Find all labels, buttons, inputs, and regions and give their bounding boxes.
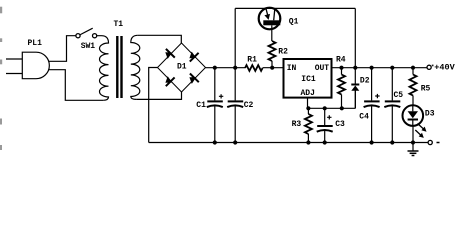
ground rail — [149, 142, 429, 144]
junction node ground C1 — [213, 140, 217, 144]
transformer T1 secondary winding — [131, 35, 140, 99]
transistor Q1 emitter with arrow — [264, 9, 270, 20]
switch SW1 contact left — [76, 34, 80, 38]
op-amp/regulator IC1 box — [284, 59, 332, 98]
junction node rail C1 — [213, 66, 217, 70]
junction node ground C5 — [390, 140, 394, 144]
capacitor C2 — [227, 100, 243, 142]
junction node ground C3 — [323, 140, 327, 144]
junction node rail R5 — [411, 66, 415, 70]
diode D2 lead top — [354, 68, 356, 84]
LED D3 light arrow lower — [415, 130, 424, 138]
svg-text:R5: R5 — [421, 84, 431, 93]
scan edge artifacts — [0, 7, 2, 150]
svg-text:C2: C2 — [244, 101, 254, 110]
svg-text:IN: IN — [287, 64, 297, 73]
plug PL1 body — [22, 52, 49, 78]
LED D3 light arrow upper — [418, 124, 427, 132]
wire bridge left corner to ground rail — [149, 68, 158, 143]
svg-text:SW1: SW1 — [81, 42, 96, 51]
capacitor C3 lead top — [324, 108, 326, 125]
wire secondary top to bridge top — [138, 35, 182, 43]
bridge D1 diode lower-left — [165, 76, 174, 86]
main positive rail right section — [332, 67, 428, 69]
junction node rail C5 — [390, 66, 394, 70]
junction node ADJ C3 — [323, 106, 327, 110]
capacitor C2 lead top — [234, 68, 236, 101]
wire plug bottom to transformer primary — [49, 70, 104, 101]
wire top rail right vertical — [354, 8, 356, 67]
transistor Q1 collector — [274, 9, 275, 20]
svg-text:+40V: +40V — [434, 63, 455, 73]
capacitor C4 — [364, 100, 380, 142]
transistor Q1 circle — [259, 8, 281, 30]
junction node ground C4 — [370, 140, 374, 144]
plug PL1 prong bottom — [6, 73, 22, 75]
negative terminal dash — [437, 142, 440, 144]
capacitor C1 plus sign — [219, 94, 223, 98]
svg-text:D3: D3 — [425, 109, 435, 118]
junction node rail R2 — [270, 66, 274, 70]
resistor R4 lead top — [341, 68, 343, 75]
main positive rail left section — [206, 67, 246, 69]
resistor R3 lead top — [307, 108, 309, 114]
junction node rail R4 — [339, 66, 343, 70]
svg-text:C4: C4 — [359, 113, 369, 122]
junction node rail C4 — [370, 66, 374, 70]
bridge D1 diode upper-right — [189, 52, 198, 62]
junction node rail C2 — [233, 66, 237, 70]
top bypass rail — [235, 7, 355, 9]
capacitor C3 — [317, 125, 333, 143]
junction node rail D2 — [353, 66, 357, 70]
svg-text:OUT: OUT — [315, 64, 330, 73]
artifact dot near +40V — [432, 65, 434, 67]
svg-text:Q1: Q1 — [289, 17, 299, 26]
svg-text:R1: R1 — [247, 56, 257, 65]
LED D3 diode — [408, 105, 418, 126]
junction node ground C2 — [233, 140, 237, 144]
capacitor C3 plus sign — [327, 115, 331, 119]
resistor R4 lead bottom — [341, 95, 343, 109]
svg-text:PL1: PL1 — [28, 39, 43, 48]
resistor R5 lead top — [412, 68, 414, 75]
junction node ADJ R3 — [306, 106, 310, 110]
transformer T1 core bar right — [120, 36, 122, 98]
svg-text:C1: C1 — [196, 101, 206, 110]
bridge rectifier D1 diamond — [158, 43, 206, 92]
capacitor C4 lead top — [371, 68, 373, 101]
negative output terminal — [428, 140, 432, 144]
svg-text:T1: T1 — [114, 20, 124, 29]
resistor R4 — [338, 75, 345, 95]
switch SW1 lever — [80, 28, 92, 34]
wire LED D3 to ground rail — [412, 126, 414, 143]
bridge D1 diode lower-right — [189, 74, 198, 84]
svg-text:R3: R3 — [292, 120, 302, 129]
resistor R5 — [410, 75, 417, 96]
wire secondary bottom to bridge bottom — [136, 92, 181, 99]
capacitor C5 lead top — [391, 68, 393, 101]
junction node ground R3 — [306, 140, 310, 144]
wire ADJ to D2 anode riser — [354, 91, 356, 109]
resistor R2 — [269, 41, 276, 61]
capacitor C5 — [384, 100, 400, 142]
positive output terminal — [427, 65, 431, 69]
ADJ node wire — [308, 107, 356, 109]
resistor R3 lead bottom — [307, 134, 309, 143]
capacitor C4 plus sign — [375, 94, 379, 98]
svg-text:D2: D2 — [360, 76, 370, 85]
junction node ADJ R4 — [340, 106, 344, 110]
wire ADJ pin down — [307, 98, 309, 109]
resistor R1 — [245, 65, 263, 71]
wire R2 to rail — [271, 61, 273, 68]
diode D2 — [351, 85, 359, 109]
svg-text:D1: D1 — [177, 62, 187, 71]
transistor Q1 base bar — [263, 20, 280, 25]
capacitor C1 — [207, 100, 223, 142]
ground symbol — [408, 143, 419, 156]
svg-text:R4: R4 — [336, 56, 346, 65]
svg-text:IC1: IC1 — [301, 75, 316, 84]
svg-text:C3: C3 — [335, 120, 345, 129]
LED D3 circle — [403, 105, 424, 126]
capacitor C1 lead top — [214, 68, 216, 101]
svg-text:R2: R2 — [278, 47, 288, 56]
wire plug top to switch — [49, 36, 76, 62]
wire R5 to LED D3 — [412, 96, 414, 106]
transformer T1 core bar left — [116, 36, 118, 98]
plug PL1 prong top — [6, 58, 22, 60]
svg-text:C5: C5 — [394, 91, 404, 100]
wire R1 to IC1 IN — [263, 67, 284, 69]
wire Q1 base to R2 — [271, 25, 273, 41]
bridge D1 diode upper-left — [165, 49, 175, 59]
svg-text:ADJ: ADJ — [301, 89, 315, 98]
switch SW1 contact right — [93, 34, 97, 38]
junction node ground D3 — [411, 140, 415, 144]
resistor R3 — [305, 114, 312, 134]
transformer T1 primary winding — [97, 36, 109, 101]
wire top rail left vertical — [234, 8, 236, 67]
